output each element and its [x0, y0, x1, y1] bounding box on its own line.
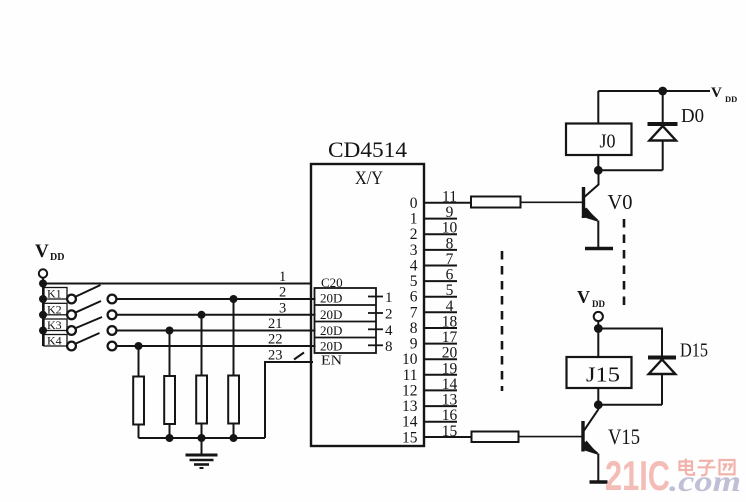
wire ground rail	[139, 437, 266, 439]
svg-text:6: 6	[446, 267, 454, 284]
svg-text:V: V	[35, 241, 49, 262]
node rail R2	[166, 434, 174, 442]
svg-text:4: 4	[385, 323, 393, 339]
svg-text:DD: DD	[725, 94, 737, 104]
wire R15 to base V15	[519, 436, 583, 438]
svg-text:D0: D0	[681, 106, 704, 127]
svg-text:14: 14	[442, 376, 458, 393]
svg-text:DD: DD	[592, 299, 605, 309]
node junction R3 tap	[198, 311, 206, 319]
svg-text:17: 17	[442, 329, 458, 346]
IC weight tick 8	[368, 339, 393, 355]
svg-text:K4: K4	[47, 334, 62, 348]
wire output 1 stub pin 9	[424, 204, 457, 221]
svg-text:X/Y: X/Y	[355, 168, 383, 189]
svg-text:K2: K2	[47, 302, 62, 316]
switch K2	[44, 301, 116, 319]
diode D15	[648, 340, 708, 405]
diode D0	[648, 91, 705, 170]
resistor R1	[133, 346, 144, 438]
svg-text:3: 3	[410, 242, 418, 259]
svg-text:12: 12	[402, 382, 418, 399]
svg-text:2: 2	[410, 226, 418, 243]
resistor R2	[164, 331, 175, 439]
svg-text:D15: D15	[680, 340, 708, 362]
relay J0	[566, 91, 632, 170]
wire output 6 stub pin 5	[424, 282, 457, 299]
svg-text:5: 5	[410, 273, 418, 290]
IC weight tick 1	[368, 290, 393, 306]
node collector V0	[594, 166, 603, 175]
wire output 4 stub pin 7	[424, 251, 457, 268]
logo char wang	[720, 460, 735, 474]
power VDD (left)	[35, 241, 64, 278]
svg-text:8: 8	[385, 339, 393, 355]
resistor R15	[472, 432, 519, 443]
svg-text:10: 10	[402, 351, 418, 368]
op-amp/IC U1 CD4514 outline	[311, 137, 424, 446]
svg-text:23: 23	[268, 348, 283, 364]
wire output 9 stub pin 17	[424, 329, 458, 346]
dashed ellipsis line (right)	[623, 219, 626, 310]
wire pin1 to IC	[43, 283, 311, 285]
wire output 14 stub pin 16	[424, 407, 458, 424]
svg-text:11: 11	[403, 367, 418, 384]
svg-text:K1: K1	[47, 287, 62, 301]
logo char dian	[680, 459, 695, 475]
svg-text:22: 22	[268, 332, 283, 348]
wire VDD top rail	[598, 90, 710, 92]
transistor V0	[582, 171, 633, 249]
svg-text:1: 1	[385, 290, 393, 306]
svg-text:2: 2	[385, 307, 393, 323]
node rail R4	[230, 434, 238, 442]
node junction R1 tap	[135, 342, 143, 350]
svg-text:14: 14	[402, 414, 418, 431]
svg-text:19: 19	[442, 360, 458, 377]
node rail R3	[198, 434, 206, 442]
node junction on VDD bus at pin1	[39, 280, 47, 288]
svg-text:EN: EN	[321, 354, 342, 369]
power VDD (mid right)	[577, 287, 605, 321]
svg-text:V0: V0	[608, 190, 633, 214]
switch K1	[44, 285, 116, 303]
resistor R4	[228, 299, 239, 438]
svg-text:1: 1	[279, 269, 286, 285]
transistor V15	[582, 405, 641, 482]
svg-text:8: 8	[446, 235, 454, 252]
IC U1 internal latch block	[315, 275, 377, 369]
svg-text:DD: DD	[50, 252, 64, 263]
node junction K3	[39, 327, 47, 335]
wire K4 to IC pin22	[116, 345, 315, 347]
node junction R2 tap	[166, 327, 174, 335]
svg-text:10: 10	[442, 220, 458, 237]
node VDD J15	[594, 324, 603, 333]
svg-text:21: 21	[268, 316, 283, 332]
node junction R4 tap	[230, 295, 238, 303]
logo char zi	[698, 461, 716, 476]
svg-text:9: 9	[446, 204, 454, 221]
resistor R3	[196, 315, 207, 438]
wire output 12 stub pin 14	[424, 376, 458, 393]
svg-text:15: 15	[402, 429, 418, 446]
svg-text:6: 6	[410, 289, 418, 306]
wire K2 to IC pin3	[116, 314, 315, 316]
switch K4	[44, 333, 116, 350]
node collector V15	[594, 400, 603, 409]
svg-text:CD4514: CD4514	[328, 137, 407, 162]
svg-text:20D: 20D	[320, 323, 342, 338]
svg-text:20D: 20D	[320, 291, 342, 306]
svg-text:21IC: 21IC	[605, 452, 670, 499]
wire node to D15 top	[598, 329, 662, 356]
wire output 2 stub pin 10	[424, 220, 458, 237]
wire output 11 stub pin 19	[424, 360, 458, 377]
svg-text:5: 5	[446, 282, 454, 299]
switch K3	[44, 317, 116, 335]
wire output 3 stub pin 8	[424, 235, 457, 252]
svg-text:J0: J0	[600, 132, 616, 153]
wire EN riser	[265, 362, 313, 438]
svg-text:20: 20	[442, 345, 458, 362]
svg-text:2: 2	[279, 285, 286, 301]
wire output 8 stub pin 18	[424, 314, 458, 331]
wire output 0 to resistor	[424, 202, 471, 204]
IC weight tick 4	[368, 323, 393, 339]
resistor R0	[471, 197, 521, 208]
svg-text:7: 7	[410, 304, 418, 321]
svg-text:8: 8	[410, 320, 418, 337]
wire collector node to diode	[598, 169, 662, 171]
node junction K1	[39, 295, 47, 303]
svg-text:9: 9	[410, 336, 418, 353]
power VDD (top right)	[711, 85, 737, 104]
wire VDD vertical bus	[42, 278, 44, 346]
wire output 5 stub pin 6	[424, 267, 457, 284]
relay J15	[567, 357, 632, 405]
svg-text:0: 0	[410, 195, 418, 212]
wire VDD to J15 node	[597, 321, 599, 357]
svg-text:1: 1	[410, 211, 418, 228]
svg-text:16: 16	[442, 407, 458, 424]
svg-text:V15: V15	[608, 424, 640, 449]
svg-text:18: 18	[442, 314, 458, 331]
IC weight tick 2	[368, 307, 393, 323]
wire EN kink artifact	[294, 353, 304, 360]
svg-text:K3: K3	[47, 318, 62, 332]
svg-text:J15: J15	[586, 363, 620, 387]
node top rail diode	[658, 87, 667, 96]
wire R0 to base V0	[521, 201, 583, 203]
svg-text:13: 13	[402, 398, 418, 415]
svg-text:3: 3	[279, 300, 286, 316]
svg-text:C20: C20	[321, 275, 343, 290]
svg-text:V: V	[577, 287, 590, 307]
svg-text:20D: 20D	[320, 339, 342, 354]
wire output 15 to resistor	[424, 436, 472, 438]
svg-text:4: 4	[410, 258, 418, 275]
wire node to diode bottom	[598, 404, 662, 406]
wire K3 to IC pin21	[116, 330, 315, 332]
svg-text:4: 4	[446, 298, 454, 315]
wire output 13 stub pin 13	[424, 392, 458, 409]
dashed ellipsis line (left)	[501, 251, 504, 391]
svg-text:20D: 20D	[320, 307, 342, 322]
wire output 7 stub pin 4	[424, 298, 457, 315]
svg-text:V: V	[711, 85, 722, 101]
svg-text:13: 13	[442, 392, 458, 409]
wire K1 to IC pin2	[116, 298, 315, 300]
svg-text:7: 7	[446, 251, 454, 268]
node junction K2	[39, 311, 47, 319]
wire output 10 stub pin 20	[424, 345, 458, 362]
ground	[186, 438, 218, 468]
